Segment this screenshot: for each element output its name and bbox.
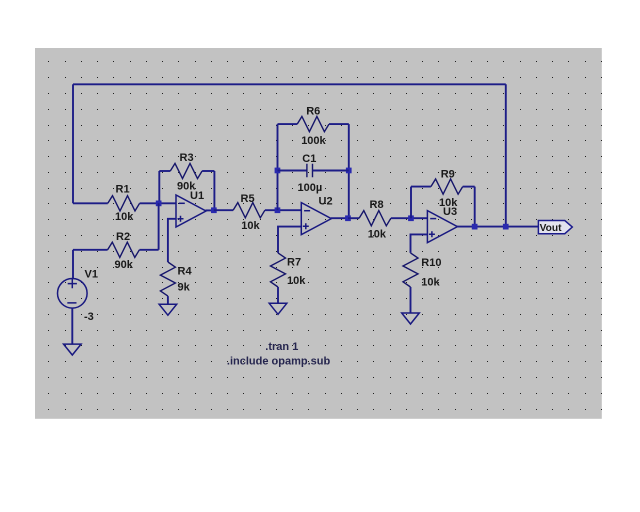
wire: V1 top lead xyxy=(72,250,74,279)
wire: R5 right lead to U2 inverting input xyxy=(265,209,301,211)
svg-text:10k: 10k xyxy=(241,220,260,232)
svg-text:10k: 10k xyxy=(421,277,440,289)
wire: R2 right lead xyxy=(139,249,158,251)
wire: R1 right lead to U1 inverting input xyxy=(140,202,176,204)
resistor R4 xyxy=(160,262,175,296)
wire: R3 right vertical down to U1 output xyxy=(213,171,215,210)
wire: U3 non-inverting input wire with corner down to R10 xyxy=(411,234,428,253)
svg-text:-3: -3 xyxy=(84,311,94,323)
ground below R7 xyxy=(269,303,287,314)
voltage source V1 xyxy=(58,279,88,309)
wire: R7 bottom lead xyxy=(277,287,279,303)
svg-text:V1: V1 xyxy=(85,269,98,281)
wire: R1 left lead xyxy=(73,202,108,204)
svg-text:R6: R6 xyxy=(306,106,320,118)
svg-text:R1: R1 xyxy=(116,184,130,196)
wire: U1 + input wire with corner down to R4 xyxy=(168,219,176,262)
net flag Vout xyxy=(538,221,572,235)
junction: R9 feedback tap on output xyxy=(472,224,478,230)
wire: R9 left vertical xyxy=(410,187,412,219)
grid dots xyxy=(48,61,602,410)
svg-text:100k: 100k xyxy=(301,135,326,147)
svg-text:.include opamp.sub: .include opamp.sub xyxy=(227,356,331,368)
resistor R7 xyxy=(271,253,286,287)
resistor R6 xyxy=(297,117,329,132)
junction: summing node at U1 inverting input xyxy=(156,201,162,207)
wire: right vertical from R6 down to U2 output xyxy=(348,124,350,218)
capacitor C1 xyxy=(307,164,313,178)
op-amp U1 xyxy=(176,195,206,227)
resistor R8 xyxy=(359,211,391,226)
wire: R3 left lead xyxy=(159,170,170,172)
wire: R10 bottom lead xyxy=(410,287,412,313)
svg-text:R5: R5 xyxy=(241,193,255,205)
wire: R9 right vertical down to output xyxy=(474,187,476,227)
resistor R1 xyxy=(108,196,140,211)
svg-text:R2: R2 xyxy=(116,231,130,243)
svg-text:C1: C1 xyxy=(302,153,316,165)
svg-text:Vout: Vout xyxy=(540,223,562,234)
svg-text:U3: U3 xyxy=(443,206,457,218)
wire: R2 left lead xyxy=(73,249,108,251)
wire: R9 left lead xyxy=(411,186,431,188)
resistor R3 xyxy=(170,163,202,178)
wire: output run to Vout flag xyxy=(457,226,539,228)
ground below V1 xyxy=(64,344,82,355)
svg-text:R10: R10 xyxy=(421,257,441,269)
ground below R4 xyxy=(159,304,177,315)
wire: left vertical from feedback to R1 xyxy=(72,84,74,203)
resistor R2 xyxy=(108,242,140,257)
junction: global feedback tap on output xyxy=(503,224,509,230)
svg-text:.tran 1: .tran 1 xyxy=(265,341,298,353)
wire: U2 output stub xyxy=(331,217,348,219)
junction: U2 output node xyxy=(345,215,351,221)
resistor R10 xyxy=(403,253,418,287)
resistor R5 xyxy=(233,203,265,218)
wire: R9 right lead xyxy=(463,186,475,188)
svg-text:90k: 90k xyxy=(115,259,134,271)
svg-text:100µ: 100µ xyxy=(298,182,323,194)
wire: U1 output stub xyxy=(206,209,214,211)
wire: R8 left lead xyxy=(348,217,359,219)
wire: vertical from U2 inverting node up to C1/R6 xyxy=(277,124,279,210)
junction: U1 output node xyxy=(211,207,217,213)
wire: R8 right lead to U3 inverting input xyxy=(391,217,428,219)
svg-text:10k: 10k xyxy=(368,228,387,240)
wire: U2 non-inverting input wire with corner down to R7 xyxy=(278,227,301,253)
svg-text:10k: 10k xyxy=(115,211,134,223)
wire: R6 left lead with corner xyxy=(278,123,298,125)
svg-text:U1: U1 xyxy=(190,190,204,202)
junction: U2 inverting input node xyxy=(275,207,281,213)
wire: R6 right lead xyxy=(329,123,349,125)
svg-text:10k: 10k xyxy=(287,275,306,287)
junction: U3 inverting input node xyxy=(408,215,414,221)
svg-text:U2: U2 xyxy=(319,196,333,208)
svg-text:R7: R7 xyxy=(287,257,301,269)
wire: C1 left lead xyxy=(278,170,307,172)
resistor R9 xyxy=(431,179,463,194)
wire: top feedback horizontal xyxy=(73,83,506,85)
op-amp U3 xyxy=(427,211,457,243)
svg-text:R8: R8 xyxy=(370,199,384,211)
wire: R4 bottom lead xyxy=(167,296,169,304)
op-amp U2 xyxy=(301,203,331,235)
ground below R10 xyxy=(402,313,420,324)
wire: V1 bottom lead xyxy=(71,308,73,344)
svg-text:9k: 9k xyxy=(178,281,191,293)
junction: C1 left node xyxy=(275,168,281,174)
svg-text:R4: R4 xyxy=(178,266,193,278)
wire: R3 left vertical xyxy=(158,171,160,201)
wire: vertical from summing node down to R2 xyxy=(158,203,160,250)
svg-text:R3: R3 xyxy=(180,152,194,164)
wire: R5 left lead xyxy=(214,209,233,211)
svg-text:R9: R9 xyxy=(441,169,455,181)
wire: R3 right lead xyxy=(202,170,214,172)
wire: right feedback vertical down to output xyxy=(505,84,507,226)
schematic canvas background xyxy=(35,48,602,419)
wire: C1 right lead xyxy=(312,170,348,172)
junction: C1 right node xyxy=(346,168,352,174)
